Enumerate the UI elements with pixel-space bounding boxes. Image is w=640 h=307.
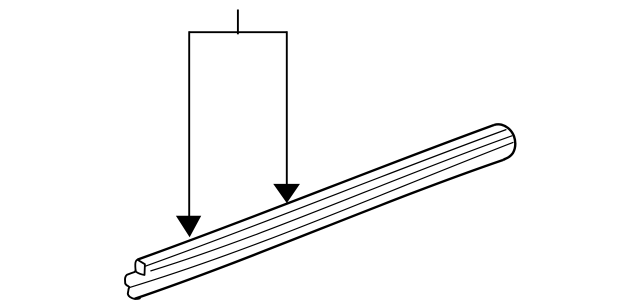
wire leader left [188, 31, 190, 220]
molding left end step edge (cut-face top, runs under rib block) [135, 271, 144, 274]
L4 body front-top thin line (starts at waist notch) [130, 142, 514, 287]
wire callout stem [237, 10, 239, 35]
L1 rib top edge (thick) [138, 125, 495, 260]
right end cap outline [494, 124, 515, 160]
wire callout horizontal bar [189, 31, 287, 33]
molding left end lobed silhouette [125, 269, 140, 299]
rib block cut face at left end [135, 260, 145, 275]
arrowhead right [274, 184, 299, 202]
wire leader right [286, 31, 288, 188]
L5 bottom edge (thick) [135, 160, 503, 299]
arrowhead left [177, 216, 201, 236]
L2 rib near-top thin line [145, 130, 506, 267]
L3 rib base thin line [150, 136, 512, 271]
